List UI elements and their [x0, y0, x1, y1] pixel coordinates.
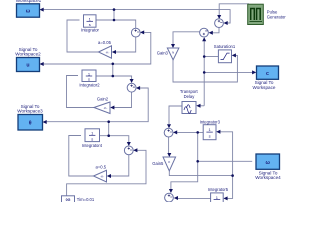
- svg-text:s: s: [88, 77, 90, 82]
- svg-text:Integrator3: Integrator3: [200, 119, 221, 124]
- svg-text:ω: ω: [266, 160, 271, 166]
- svg-text:Tim=0.01: Tim=0.01: [77, 197, 95, 202]
- svg-text:Integrator5: Integrator5: [208, 187, 229, 192]
- svg-text:Workspace2: Workspace2: [15, 52, 41, 57]
- svg-text:Generator: Generator: [267, 14, 286, 19]
- svg-text:Workspace: Workspace: [253, 85, 276, 90]
- svg-text:Workspace1: Workspace1: [16, 0, 42, 3]
- svg-text:s: s: [91, 136, 93, 141]
- svg-text:0G: 0G: [66, 198, 71, 202]
- svg-text:c: c: [266, 71, 269, 77]
- svg-text:Workspace4: Workspace4: [255, 175, 281, 180]
- svg-text:-K-: -K-: [104, 106, 108, 110]
- svg-text:K: K: [168, 160, 170, 164]
- svg-text:u: u: [26, 63, 29, 69]
- svg-text:Integrator2: Integrator2: [79, 82, 100, 87]
- svg-text:a=0.05: a=0.05: [98, 40, 112, 45]
- svg-text:Integrator: Integrator: [81, 28, 100, 33]
- svg-text:Delay: Delay: [184, 94, 196, 99]
- svg-text:θ: θ: [29, 121, 32, 127]
- svg-text:a=0.5: a=0.5: [95, 165, 106, 170]
- svg-text:Saturation1: Saturation1: [214, 44, 236, 49]
- svg-text:ω: ω: [26, 9, 31, 15]
- svg-text:-K-: -K-: [100, 175, 104, 179]
- svg-text:s: s: [209, 134, 211, 139]
- svg-text:Gain2: Gain2: [97, 96, 109, 101]
- svg-text:-K-: -K-: [106, 51, 110, 55]
- svg-text:Workspace3: Workspace3: [17, 109, 43, 114]
- svg-text:Gain5: Gain5: [152, 161, 164, 166]
- svg-text:Gain3: Gain3: [157, 50, 169, 55]
- svg-text:N: N: [172, 51, 174, 55]
- svg-text:Integrator4: Integrator4: [82, 143, 103, 148]
- svg-text:s: s: [89, 22, 91, 27]
